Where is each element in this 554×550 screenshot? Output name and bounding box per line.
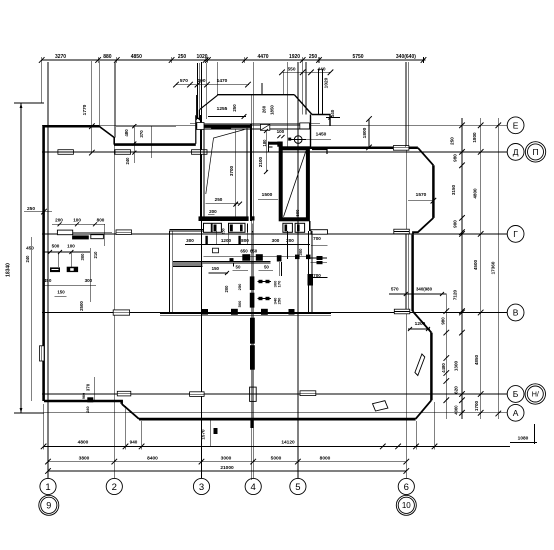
- svg-text:В: В: [513, 308, 519, 318]
- svg-text:980: 980: [453, 154, 458, 162]
- svg-text:5: 5: [295, 482, 300, 493]
- svg-text:200: 200: [224, 285, 229, 293]
- svg-text:370: 370: [86, 383, 91, 391]
- svg-text:3150: 3150: [451, 184, 456, 195]
- svg-text:340(980: 340(980: [416, 287, 433, 292]
- svg-text:14120: 14120: [281, 440, 295, 446]
- svg-text:210: 210: [93, 251, 98, 259]
- svg-text:1770: 1770: [82, 104, 88, 115]
- svg-text:650: 650: [240, 249, 248, 254]
- svg-text:480: 480: [124, 129, 129, 137]
- svg-text:8400: 8400: [147, 456, 158, 462]
- svg-text:Е: Е: [513, 120, 519, 130]
- svg-text:170: 170: [276, 280, 281, 287]
- svg-text:1800: 1800: [362, 127, 368, 138]
- svg-text:300: 300: [298, 248, 303, 256]
- svg-text:300: 300: [85, 278, 93, 283]
- svg-text:300: 300: [80, 253, 85, 261]
- svg-text:980: 980: [82, 393, 86, 399]
- svg-text:1800: 1800: [472, 132, 477, 143]
- svg-text:4800: 4800: [78, 440, 89, 446]
- svg-text:1570: 1570: [416, 192, 427, 198]
- svg-text:940: 940: [130, 440, 138, 445]
- svg-text:500: 500: [295, 209, 300, 217]
- svg-text:4850: 4850: [131, 54, 142, 60]
- svg-text:4470: 4470: [257, 54, 268, 60]
- svg-text:2: 2: [112, 482, 117, 493]
- svg-text:200: 200: [55, 218, 63, 223]
- svg-text:250: 250: [237, 283, 242, 290]
- svg-text:2100: 2100: [258, 156, 263, 167]
- svg-text:260: 260: [262, 105, 267, 113]
- svg-text:570: 570: [180, 78, 188, 84]
- svg-text:800: 800: [97, 218, 105, 223]
- svg-text:300: 300: [186, 238, 194, 243]
- svg-text:3: 3: [199, 482, 204, 493]
- svg-text:800: 800: [241, 238, 249, 243]
- svg-text:1470: 1470: [217, 78, 228, 84]
- svg-text:3700: 3700: [229, 165, 234, 176]
- svg-text:240: 240: [86, 406, 90, 412]
- svg-text:900: 900: [453, 220, 458, 228]
- svg-text:500: 500: [52, 243, 60, 248]
- svg-text:3800: 3800: [79, 456, 90, 462]
- svg-text:1200: 1200: [221, 238, 232, 243]
- svg-text:200: 200: [209, 209, 217, 214]
- svg-text:150: 150: [212, 266, 220, 271]
- svg-text:Н/: Н/: [532, 390, 539, 399]
- svg-text:4500: 4500: [473, 259, 478, 270]
- svg-text:250: 250: [309, 54, 318, 60]
- svg-text:Д: Д: [513, 147, 519, 157]
- svg-text:Г: Г: [513, 229, 518, 239]
- svg-text:100: 100: [73, 218, 81, 223]
- svg-text:150: 150: [57, 290, 65, 295]
- svg-text:4850: 4850: [474, 354, 479, 365]
- svg-text:1920: 1920: [289, 54, 300, 60]
- svg-text:17360: 17360: [491, 261, 496, 274]
- svg-text:10: 10: [402, 501, 411, 510]
- svg-text:250: 250: [215, 197, 223, 202]
- svg-text:1700: 1700: [474, 400, 479, 411]
- svg-text:2500: 2500: [79, 301, 84, 311]
- svg-text:370: 370: [139, 130, 144, 138]
- svg-text:700: 700: [313, 236, 321, 241]
- svg-text:1020: 1020: [196, 54, 207, 60]
- svg-text:6: 6: [404, 482, 409, 493]
- svg-text:100: 100: [197, 78, 205, 84]
- svg-text:450: 450: [26, 246, 34, 251]
- svg-text:1080: 1080: [518, 436, 529, 442]
- svg-text:980: 980: [441, 317, 446, 325]
- svg-text:5750: 5750: [352, 54, 363, 60]
- svg-text:9: 9: [46, 501, 51, 511]
- svg-text:1255: 1255: [217, 106, 228, 112]
- svg-text:7120: 7120: [452, 289, 457, 300]
- svg-text:4480: 4480: [441, 363, 446, 373]
- svg-text:240: 240: [125, 157, 130, 165]
- svg-text:Б: Б: [513, 389, 519, 399]
- svg-text:1570: 1570: [201, 429, 206, 440]
- svg-text:250: 250: [222, 228, 226, 234]
- svg-text:3270: 3270: [55, 54, 66, 60]
- svg-text:4: 4: [251, 482, 256, 493]
- svg-text:500: 500: [237, 300, 242, 307]
- svg-text:250: 250: [450, 137, 455, 145]
- svg-text:240: 240: [25, 255, 30, 263]
- svg-text:650: 650: [250, 249, 258, 254]
- svg-text:21000: 21000: [220, 465, 234, 471]
- svg-text:100: 100: [67, 243, 75, 248]
- svg-text:4800: 4800: [472, 188, 477, 199]
- svg-text:1: 1: [45, 482, 50, 493]
- svg-text:250: 250: [232, 104, 237, 112]
- svg-text:340(640): 340(640): [396, 54, 416, 60]
- svg-text:4060: 4060: [454, 405, 459, 415]
- svg-text:250: 250: [276, 297, 281, 304]
- svg-text:1450: 1450: [316, 132, 327, 138]
- svg-text:50: 50: [264, 264, 269, 269]
- svg-text:3000: 3000: [221, 456, 232, 462]
- svg-text:1020: 1020: [324, 77, 330, 88]
- svg-text:300: 300: [272, 238, 280, 243]
- svg-text:880: 880: [103, 54, 112, 60]
- svg-text:50: 50: [236, 264, 241, 269]
- svg-text:1300: 1300: [454, 360, 459, 371]
- svg-text:1850: 1850: [270, 105, 275, 115]
- svg-text:570: 570: [391, 287, 399, 292]
- svg-text:620: 620: [454, 386, 459, 394]
- svg-text:18340: 18340: [6, 263, 12, 277]
- svg-text:450: 450: [44, 278, 52, 283]
- svg-text:А: А: [513, 408, 519, 418]
- svg-text:П: П: [532, 147, 538, 157]
- svg-text:5000: 5000: [271, 456, 282, 462]
- svg-text:100: 100: [277, 129, 285, 134]
- svg-text:8000: 8000: [320, 456, 331, 462]
- svg-text:1200: 1200: [415, 321, 426, 327]
- svg-text:1500: 1500: [262, 192, 273, 198]
- svg-text:250: 250: [178, 54, 187, 60]
- svg-text:250: 250: [27, 206, 35, 212]
- svg-text:550: 550: [287, 66, 295, 72]
